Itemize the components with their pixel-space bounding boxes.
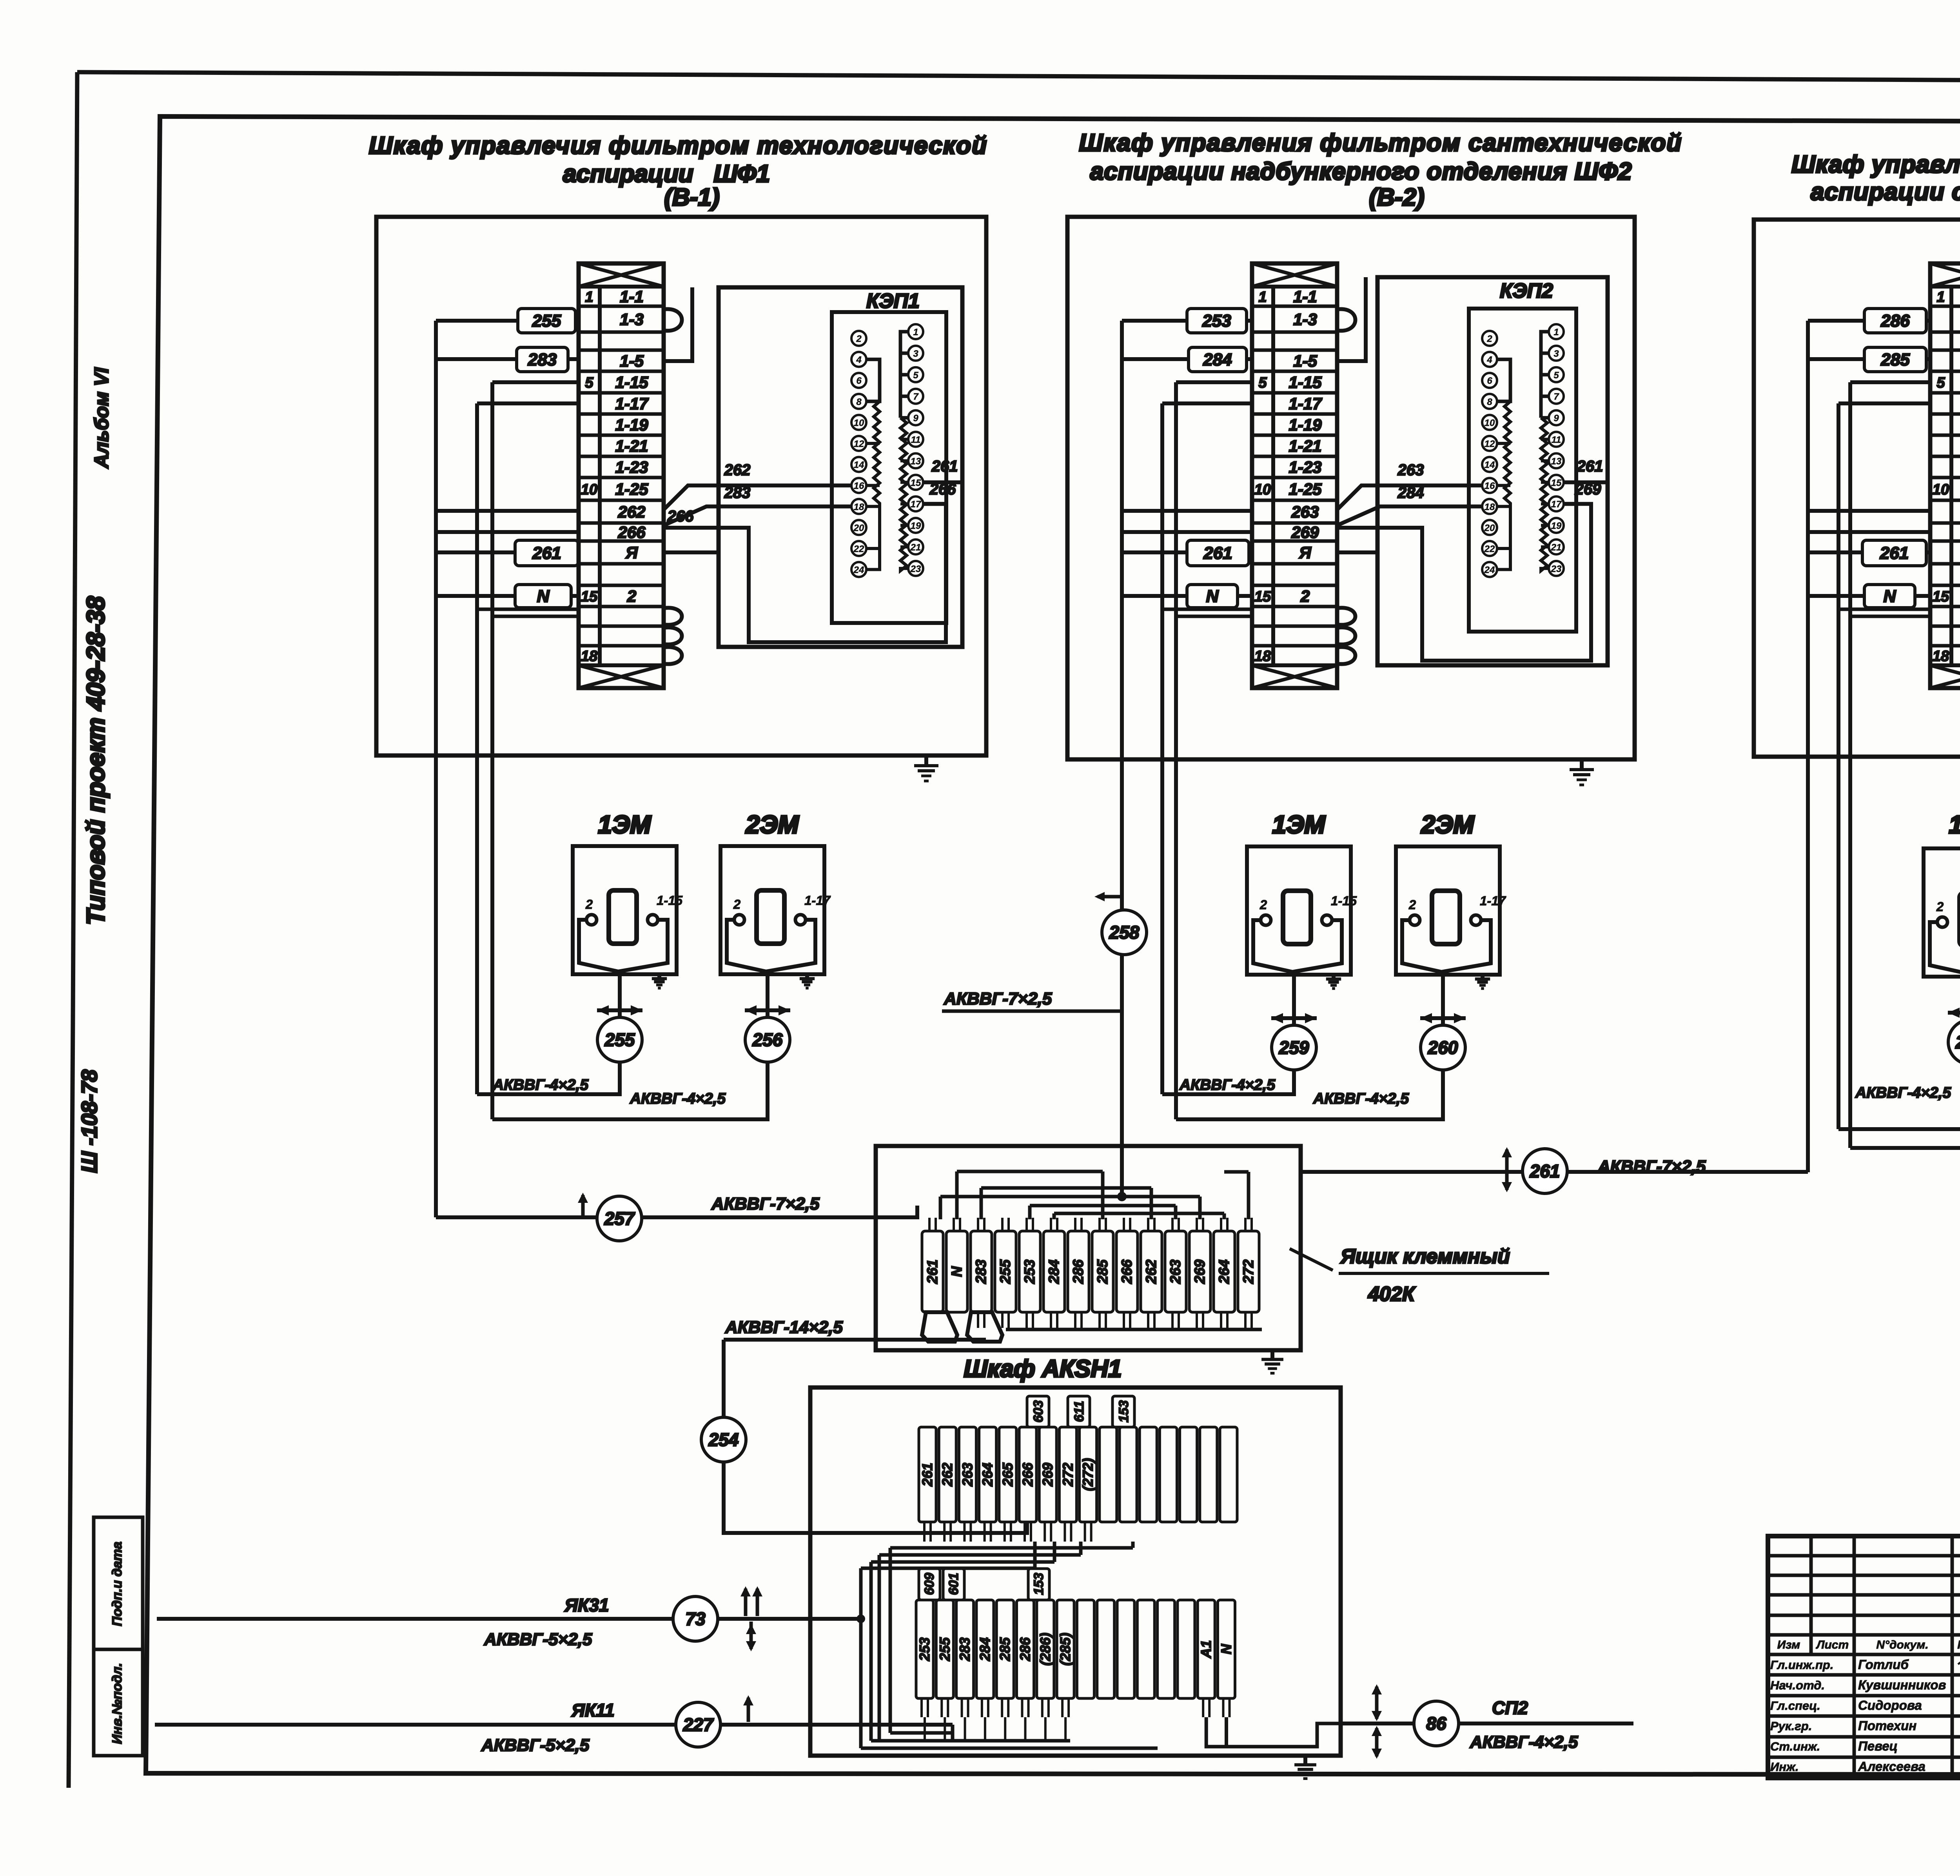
svg-text:266: 266 — [617, 523, 646, 541]
ground at 2ЭМ ШФ1 — [805, 972, 809, 979]
КЭП2 output wire 269 — [1564, 502, 1576, 506]
svg-text:АКВВГ-4×2,5: АКВВГ-4×2,5 — [1313, 1090, 1409, 1107]
svg-text:22: 22 — [1484, 544, 1495, 554]
svg-text:1-17: 1-17 — [615, 394, 649, 413]
svg-text:аспирации надбункерного отделе: аспирации надбункерного отделения ШФ2 — [1090, 158, 1632, 185]
arrow on cable 261 — [1505, 1150, 1509, 1190]
cable 258 label leader АКВВГ-7х2,5 — [942, 1010, 1122, 1013]
fuse label 611 — [1068, 1396, 1090, 1427]
svg-text:АКВВГ-4×2,5: АКВВГ-4×2,5 — [492, 1077, 589, 1093]
svg-text:1: 1 — [1936, 289, 1945, 305]
svg-text:16: 16 — [854, 481, 864, 491]
svg-text:2: 2 — [1486, 334, 1492, 344]
svg-text:14: 14 — [1485, 460, 1495, 470]
terminal box top routing rails — [929, 1171, 1252, 1231]
svg-text:253: 253 — [1022, 1259, 1038, 1284]
svg-text:24: 24 — [1484, 565, 1495, 576]
terminal box 402К terminal row — [922, 1231, 1259, 1312]
cable 261 horizontal run terminal box to ШФ3 — [1301, 1170, 1808, 1174]
ground of cabinet ШФ1 — [924, 755, 928, 766]
svg-text:261: 261 — [924, 1260, 940, 1284]
svg-text:13: 13 — [911, 456, 921, 467]
svg-text:2: 2 — [1408, 897, 1416, 912]
svg-text:6: 6 — [1487, 376, 1492, 386]
svg-text:2ЭМ: 2ЭМ — [746, 810, 800, 839]
svg-text:1-3: 1-3 — [1293, 310, 1317, 329]
cable marker 260 — [1421, 1025, 1465, 1070]
svg-text:611: 611 — [1072, 1401, 1087, 1422]
svg-text:8: 8 — [856, 397, 862, 407]
svg-text:261: 261 — [532, 544, 561, 563]
svg-text:аспирации смесительного отделе: аспирации смесительного отделения ШФЗ — [1811, 178, 1960, 205]
svg-text:261: 261 — [1880, 544, 1909, 563]
svg-text:10: 10 — [581, 481, 597, 498]
cabinet AKSH1 enclosure — [810, 1387, 1341, 1756]
wire core 286 to row 1-3 — [1808, 319, 1864, 323]
svg-text:1: 1 — [1258, 289, 1267, 305]
svg-text:1-5: 1-5 — [1293, 352, 1317, 370]
svg-text:Лист: Лист — [1816, 1638, 1849, 1651]
svg-text:11: 11 — [911, 435, 921, 445]
wire hooks rows 16-17 — [1162, 608, 1252, 611]
svg-text:10: 10 — [1485, 418, 1495, 428]
svg-text:269: 269 — [1575, 481, 1601, 498]
svg-text:609: 609 — [922, 1573, 937, 1595]
svg-text:286: 286 — [1880, 311, 1910, 331]
svg-text:283: 283 — [957, 1637, 973, 1661]
svg-text:Изм: Изм — [1777, 1638, 1800, 1651]
svg-text:1ЭМ: 1ЭМ — [1949, 810, 1960, 839]
svg-text:3: 3 — [1553, 349, 1559, 359]
svg-text:15: 15 — [1551, 478, 1562, 488]
svg-text:Типовой проект 409-28-38: Типовой проект 409-28-38 — [82, 596, 110, 925]
cable marker 73 — [673, 1596, 718, 1641]
svg-text:23: 23 — [910, 564, 921, 574]
svg-text:284: 284 — [1397, 484, 1424, 501]
motor cable run 1 — [1162, 1070, 1294, 1094]
ground of terminal box — [1270, 1350, 1274, 1359]
svg-text:15: 15 — [1254, 588, 1271, 605]
svg-text:1ЭМ: 1ЭМ — [598, 810, 652, 839]
wire core 261 to row Я — [1122, 550, 1187, 554]
svg-text:Я: Я — [625, 543, 638, 562]
КЭП1 left contact column (pins 2-24) — [851, 331, 866, 577]
svg-text:10: 10 — [1254, 481, 1271, 498]
svg-text:21: 21 — [1551, 542, 1562, 553]
wire row 1-5 up to КЭП1 enclosure — [664, 287, 692, 361]
cabinet ШФ1 enclosure — [376, 217, 986, 755]
wire row 1-15 to motor line — [1850, 380, 1930, 384]
svg-text:1-15: 1-15 — [657, 893, 683, 908]
arrow on cable 257 — [581, 1195, 585, 1215]
svg-text:9: 9 — [913, 413, 918, 424]
svg-text:264: 264 — [1216, 1260, 1232, 1284]
ground of cabinet ШФ2 — [1580, 759, 1584, 770]
svg-text:АКВВГ-14×2,5: АКВВГ-14×2,5 — [725, 1318, 843, 1337]
svg-text:284: 284 — [1203, 350, 1232, 369]
svg-text:153: 153 — [1116, 1400, 1131, 1423]
svg-text:10: 10 — [1933, 481, 1949, 498]
svg-text:1-19: 1-19 — [615, 416, 648, 434]
КЭП1 internal chain wiring — [866, 332, 908, 571]
cable marker 86 — [1414, 1701, 1459, 1746]
svg-text:260: 260 — [1428, 1037, 1458, 1058]
wire row 1-15 to motor line — [492, 380, 579, 384]
svg-text:601: 601 — [946, 1573, 961, 1595]
svg-text:АКВВГ-4×2,5: АКВВГ-4×2,5 — [1470, 1733, 1578, 1752]
svg-text:А1: А1 — [1198, 1640, 1214, 1658]
wire row 263 to trunk — [1122, 509, 1252, 513]
svg-text:264: 264 — [980, 1463, 996, 1487]
wire core 285 to row 1-5 — [1808, 357, 1864, 361]
cable gland under terminal N — [967, 1312, 1002, 1342]
title block frame — [1768, 1536, 1960, 1778]
cable marker 259 — [1272, 1025, 1316, 1070]
svg-text:20: 20 — [1484, 523, 1495, 533]
motor cable run 1 — [477, 1062, 620, 1094]
wire row 1-5 up to КЭП2 enclosure — [1337, 277, 1366, 361]
svg-text:1-21: 1-21 — [1289, 437, 1321, 455]
svg-text:5: 5 — [585, 375, 593, 391]
cable 257 entry into terminal box — [876, 1206, 917, 1217]
motor starter 2ЭМ ШФ2 — [1396, 846, 1506, 975]
svg-text:286: 286 — [1017, 1637, 1033, 1661]
fuse label 603 — [1027, 1396, 1049, 1427]
svg-text:1-5: 1-5 — [620, 352, 644, 370]
wire row 1-17 to motor line — [1162, 401, 1252, 405]
motor cable run 1 — [1838, 1064, 1960, 1129]
КЭП1 output wire 266 — [923, 502, 946, 506]
svg-text:Альбом VI: Альбом VI — [91, 367, 113, 469]
wire row 264 to trunk — [1808, 509, 1930, 513]
svg-text:269: 269 — [1040, 1463, 1056, 1487]
motor 1 stem and direction arrow — [1292, 972, 1296, 1025]
svg-text:73: 73 — [685, 1609, 706, 1629]
svg-text:1-3: 1-3 — [620, 310, 644, 329]
cable АКВВГ-14х2,5 exit from terminal box — [876, 1338, 986, 1342]
AKSH1 upper terminal row — [919, 1427, 1237, 1522]
arrow on cable 258 — [1098, 895, 1122, 899]
svg-text:253: 253 — [916, 1637, 933, 1661]
wire core 261 to row Я — [436, 550, 515, 554]
wire core 253 to row 1-3 — [1122, 319, 1187, 323]
svg-text:2: 2 — [627, 587, 636, 605]
svg-text:269: 269 — [1291, 523, 1319, 541]
svg-text:17: 17 — [1551, 499, 1562, 510]
wire core N to row 2 — [436, 594, 515, 598]
wire row 1-17 to motor line — [477, 401, 579, 405]
feeder ЯК31 line — [157, 1617, 861, 1621]
svg-text:285: 285 — [1880, 350, 1910, 369]
svg-text:261: 261 — [1530, 1161, 1560, 1181]
svg-text:285: 285 — [997, 1637, 1013, 1661]
svg-text:N: N — [1218, 1644, 1234, 1654]
svg-text:18: 18 — [1254, 648, 1271, 665]
wire 262 strip to КЭП1 pin 16 — [664, 485, 851, 510]
svg-text:12: 12 — [1485, 439, 1495, 449]
svg-text:5: 5 — [1553, 370, 1559, 381]
arrows on ЯК31 — [744, 1589, 748, 1616]
svg-text:23: 23 — [1551, 564, 1562, 574]
cable marker 258 — [1102, 910, 1147, 955]
ground at 1ЭМ ШФ1 — [657, 972, 661, 979]
svg-text:N: N — [1206, 587, 1219, 606]
svg-text:4: 4 — [1486, 355, 1492, 365]
cable 254 run (АКВВГ-14х2,6) — [722, 1340, 726, 1417]
svg-text:266: 266 — [1020, 1462, 1036, 1487]
КЭП2 output wire 261 — [1564, 480, 1608, 484]
wire core N to row 2 — [1122, 594, 1187, 598]
svg-text:2: 2 — [856, 334, 862, 344]
svg-text:Подп.и дата: Подп.и дата — [110, 1542, 125, 1626]
svg-text:1-17: 1-17 — [1289, 394, 1322, 413]
motor feeder vertical 2 — [490, 382, 494, 1119]
svg-text:1-25: 1-25 — [1289, 480, 1322, 498]
svg-text:Ш -108-78: Ш -108-78 — [77, 1069, 102, 1173]
КЭП1 right contact column (pins 1-23) — [908, 324, 923, 576]
motor feeder vertical 1 — [1160, 403, 1164, 1094]
svg-text:ЯК31: ЯК31 — [564, 1595, 609, 1615]
svg-text:262: 262 — [1955, 1032, 1960, 1052]
svg-text:24: 24 — [853, 565, 864, 576]
svg-text:АКВВГ-4×2,5: АКВВГ-4×2,5 — [630, 1090, 726, 1107]
motor cable run 2 — [1176, 1070, 1443, 1119]
svg-text:8: 8 — [1487, 397, 1492, 407]
svg-text:11: 11 — [1552, 435, 1561, 445]
svg-text:18: 18 — [854, 502, 864, 512]
svg-text:КЭП1: КЭП1 — [866, 290, 920, 312]
svg-text:13: 13 — [1551, 456, 1562, 467]
cable trunk vertical of КЭП2 cabinet — [1120, 321, 1124, 1146]
svg-text:Инв.№подл.: Инв.№подл. — [110, 1663, 125, 1744]
wire 283 strip to КЭП1 pin 18 — [664, 507, 851, 525]
svg-text:284: 284 — [1046, 1260, 1062, 1284]
svg-text:15: 15 — [1933, 588, 1949, 605]
fuse label 153 lower — [1028, 1569, 1049, 1600]
svg-text:272: 272 — [1060, 1463, 1076, 1487]
svg-text:15: 15 — [911, 478, 921, 488]
svg-text:Шкаф управлечия фильтром техно: Шкаф управлечия фильтром технологической — [369, 132, 987, 159]
command device КЭП1 inner box — [832, 312, 946, 623]
svg-text:263: 263 — [1397, 461, 1424, 479]
cable 257 horizontal run to terminal box — [436, 1215, 876, 1219]
wire 263 strip to КЭП2 pin 16 — [1337, 485, 1482, 510]
cable marker 257 — [597, 1196, 642, 1241]
svg-text:5: 5 — [1258, 375, 1267, 391]
svg-text:19: 19 — [911, 521, 921, 531]
svg-text:N: N — [537, 587, 550, 606]
cable marker 227 — [676, 1702, 720, 1747]
wire hooks rows 16-17 — [477, 608, 579, 611]
svg-text:АКВВГ-7×2,5: АКВВГ-7×2,5 — [1597, 1157, 1706, 1176]
svg-text:(В-1): (В-1) — [664, 184, 719, 211]
svg-text:263: 263 — [1167, 1259, 1183, 1284]
svg-text:Алексеева: Алексеева — [1858, 1759, 1926, 1774]
svg-text:(В-2): (В-2) — [1369, 184, 1424, 211]
wire row 266 to trunk — [436, 530, 579, 534]
svg-text:1-25: 1-25 — [615, 480, 648, 498]
wire row 269 under КЭП2 box — [1337, 504, 1591, 661]
motor starter 2ЭМ ШФ1 — [720, 846, 831, 974]
cable marker 254 — [701, 1417, 746, 1462]
svg-text:АКВВГ-7×2,5: АКВВГ-7×2,5 — [711, 1194, 820, 1213]
svg-text:1-23: 1-23 — [615, 458, 648, 476]
motor 2 stem and direction arrow — [766, 972, 769, 1017]
AKSH1 lower terminal row — [916, 1600, 1235, 1698]
svg-text:Гл.спец.: Гл.спец. — [1770, 1699, 1820, 1713]
motor 1 stem and direction arrow — [618, 972, 622, 1017]
svg-text:(272): (272) — [1080, 1458, 1096, 1491]
КЭП2 internal chain wiring — [1497, 332, 1549, 571]
fuse label 153 — [1112, 1396, 1134, 1427]
AKSH1 upper strip lower stubs — [924, 1522, 1091, 1542]
svg-text:603: 603 — [1031, 1400, 1046, 1423]
svg-text:18: 18 — [581, 648, 598, 665]
svg-text:Рук.гр.: Рук.гр. — [1770, 1719, 1812, 1733]
svg-text:Инж.: Инж. — [1770, 1760, 1798, 1774]
svg-text:1-23: 1-23 — [1289, 458, 1321, 476]
wire row 1-17 to motor line — [1838, 401, 1930, 405]
svg-text:257: 257 — [604, 1208, 635, 1229]
feeder ЯК11 line — [155, 1723, 953, 1727]
svg-text:2: 2 — [1936, 899, 1944, 914]
cable 254 entry into AKSH1 — [810, 1522, 1027, 1533]
svg-text:1: 1 — [913, 327, 918, 338]
svg-text:17: 17 — [911, 499, 922, 510]
svg-text:АКВВГ-7×2,5: АКВВГ-7×2,5 — [944, 989, 1052, 1008]
AKSH1 lower strip stubs — [922, 1698, 1230, 1717]
title block header row — [1777, 1638, 1960, 1651]
svg-text:N: N — [949, 1266, 965, 1277]
svg-text:12: 12 — [854, 439, 864, 449]
ground at 1ЭМ ШФ2 — [1332, 973, 1336, 979]
svg-text:ЯК11: ЯК11 — [571, 1700, 615, 1720]
svg-text:18: 18 — [1933, 648, 1949, 665]
svg-text:286: 286 — [1070, 1259, 1086, 1284]
cable marker 261 — [1523, 1149, 1567, 1193]
label Ящик клеммный 402К with leader — [1290, 1249, 1333, 1270]
svg-text:1-19: 1-19 — [1289, 416, 1322, 434]
svg-text:Я: Я — [1299, 543, 1312, 562]
svg-text:402К: 402К — [1368, 1283, 1416, 1306]
svg-text:9: 9 — [1553, 413, 1559, 424]
svg-text:Сидорова: Сидорова — [1858, 1698, 1922, 1713]
svg-text:261: 261 — [1577, 458, 1603, 475]
svg-text:16: 16 — [1485, 481, 1495, 491]
wire row 272 to trunk — [1808, 530, 1930, 534]
svg-text:86: 86 — [1426, 1713, 1446, 1734]
svg-text:АКВВГ-5×2,5: АКВВГ-5×2,5 — [484, 1630, 592, 1649]
svg-text:Готлиб: Готлиб — [1858, 1657, 1909, 1672]
svg-text:266: 266 — [667, 508, 694, 525]
svg-text:6: 6 — [856, 376, 862, 386]
motor starter 1ЭМ ШФ1 — [573, 846, 683, 974]
motor starter 1ЭМ ШФ3 — [1924, 848, 1960, 977]
wire core 261 to row Я — [1808, 550, 1862, 554]
cabinet ШФ2 enclosure — [1067, 217, 1635, 759]
wire core 255 to row 1-3 — [436, 319, 518, 323]
svg-text:N: N — [1884, 587, 1896, 606]
svg-text:255: 255 — [936, 1637, 953, 1661]
cable 258 entry into terminal box — [1120, 1146, 1124, 1197]
svg-text:2ЭМ: 2ЭМ — [1421, 810, 1475, 839]
AKSH1 mid routing buses — [861, 1542, 1158, 1748]
AKSH1 lower stub connections to bus — [925, 1717, 1065, 1741]
terminal box bottom stubs and bus — [978, 1312, 1262, 1329]
svg-text:1ЭМ: 1ЭМ — [1272, 810, 1326, 839]
svg-text:КЭП2: КЭП2 — [1500, 280, 1553, 302]
svg-text:20: 20 — [853, 523, 864, 533]
wire row Я to КЭП2 enclosure — [1337, 550, 1377, 554]
sheet outer border left — [69, 72, 77, 1788]
svg-text:259: 259 — [1279, 1037, 1309, 1058]
terminal strip XT (ШФ1) — [579, 263, 682, 688]
feeder СП2 line — [1341, 1722, 1633, 1725]
terminal strip XT (ШФ2) — [1252, 263, 1356, 688]
title block signature rows — [1770, 1657, 1960, 1774]
svg-text:Подпись: Подпись — [1957, 1638, 1960, 1651]
КЭП1 output wire 261 — [923, 480, 962, 484]
svg-text:3: 3 — [913, 349, 918, 359]
svg-text:256: 256 — [752, 1030, 783, 1050]
svg-text:1-1: 1-1 — [620, 287, 644, 306]
svg-text:Нач.отд.: Нач.отд. — [1770, 1678, 1825, 1692]
wire row 269 to trunk — [1122, 530, 1252, 534]
svg-text:255: 255 — [604, 1030, 635, 1050]
wire core N to row 2 — [1808, 594, 1864, 598]
svg-text:4: 4 — [856, 355, 861, 365]
ground of AKSH1 — [1303, 1756, 1307, 1765]
cabinet ШФ3 enclosure — [1754, 220, 1960, 757]
wire А1-N to СП2 exit — [1206, 1717, 1341, 1747]
wire hooks rows 16-17 — [1838, 608, 1930, 611]
arrows on СП2 — [1375, 1687, 1379, 1719]
svg-text:1-15: 1-15 — [615, 373, 648, 392]
svg-text:Кувшинников: Кувшинников — [1858, 1678, 1946, 1692]
svg-text:Гл.инж.пр.: Гл.инж.пр. — [1770, 1658, 1833, 1672]
command device КЭП2 enclosure — [1377, 277, 1608, 665]
svg-text:10: 10 — [854, 418, 864, 428]
svg-text:5: 5 — [1936, 375, 1945, 391]
cable trunk vertical of КЭП3 cabinet — [1806, 321, 1810, 1172]
cable marker 256 — [745, 1017, 790, 1062]
cable gland under terminal 261 — [922, 1312, 957, 1342]
svg-text:269: 269 — [1192, 1259, 1208, 1284]
svg-text:262: 262 — [617, 503, 645, 521]
svg-text:1-15: 1-15 — [1289, 373, 1322, 392]
svg-text:Певец: Певец — [1858, 1739, 1898, 1753]
ground at 2ЭМ ШФ2 — [1481, 973, 1485, 979]
motor cable run 2 — [1850, 1064, 1960, 1148]
motor feeder vertical 2 — [1848, 382, 1852, 1148]
svg-text:261: 261 — [1203, 544, 1232, 563]
svg-text:262: 262 — [724, 461, 751, 479]
motor cable run 2 — [492, 1062, 768, 1119]
svg-text:19: 19 — [1551, 521, 1562, 531]
svg-text:227: 227 — [683, 1714, 714, 1735]
svg-text:1-15: 1-15 — [1331, 894, 1357, 908]
wire row Я to КЭП1 enclosure — [664, 550, 719, 554]
svg-text:5: 5 — [913, 370, 918, 381]
wire 284 strip to КЭП2 pin 18 — [1337, 507, 1482, 525]
cable trunk vertical of КЭП1 cabinet — [434, 321, 438, 1217]
svg-text:АКВВГ-4×2,5: АКВВГ-4×2,5 — [1179, 1077, 1276, 1093]
terminal strip XT (ШФ3) — [1930, 263, 1960, 688]
svg-text:1-17: 1-17 — [804, 893, 831, 908]
motor 2 stem and direction arrow — [1441, 972, 1445, 1025]
svg-text:283: 283 — [973, 1259, 989, 1284]
motor feeder vertical 1 — [1837, 403, 1840, 1129]
